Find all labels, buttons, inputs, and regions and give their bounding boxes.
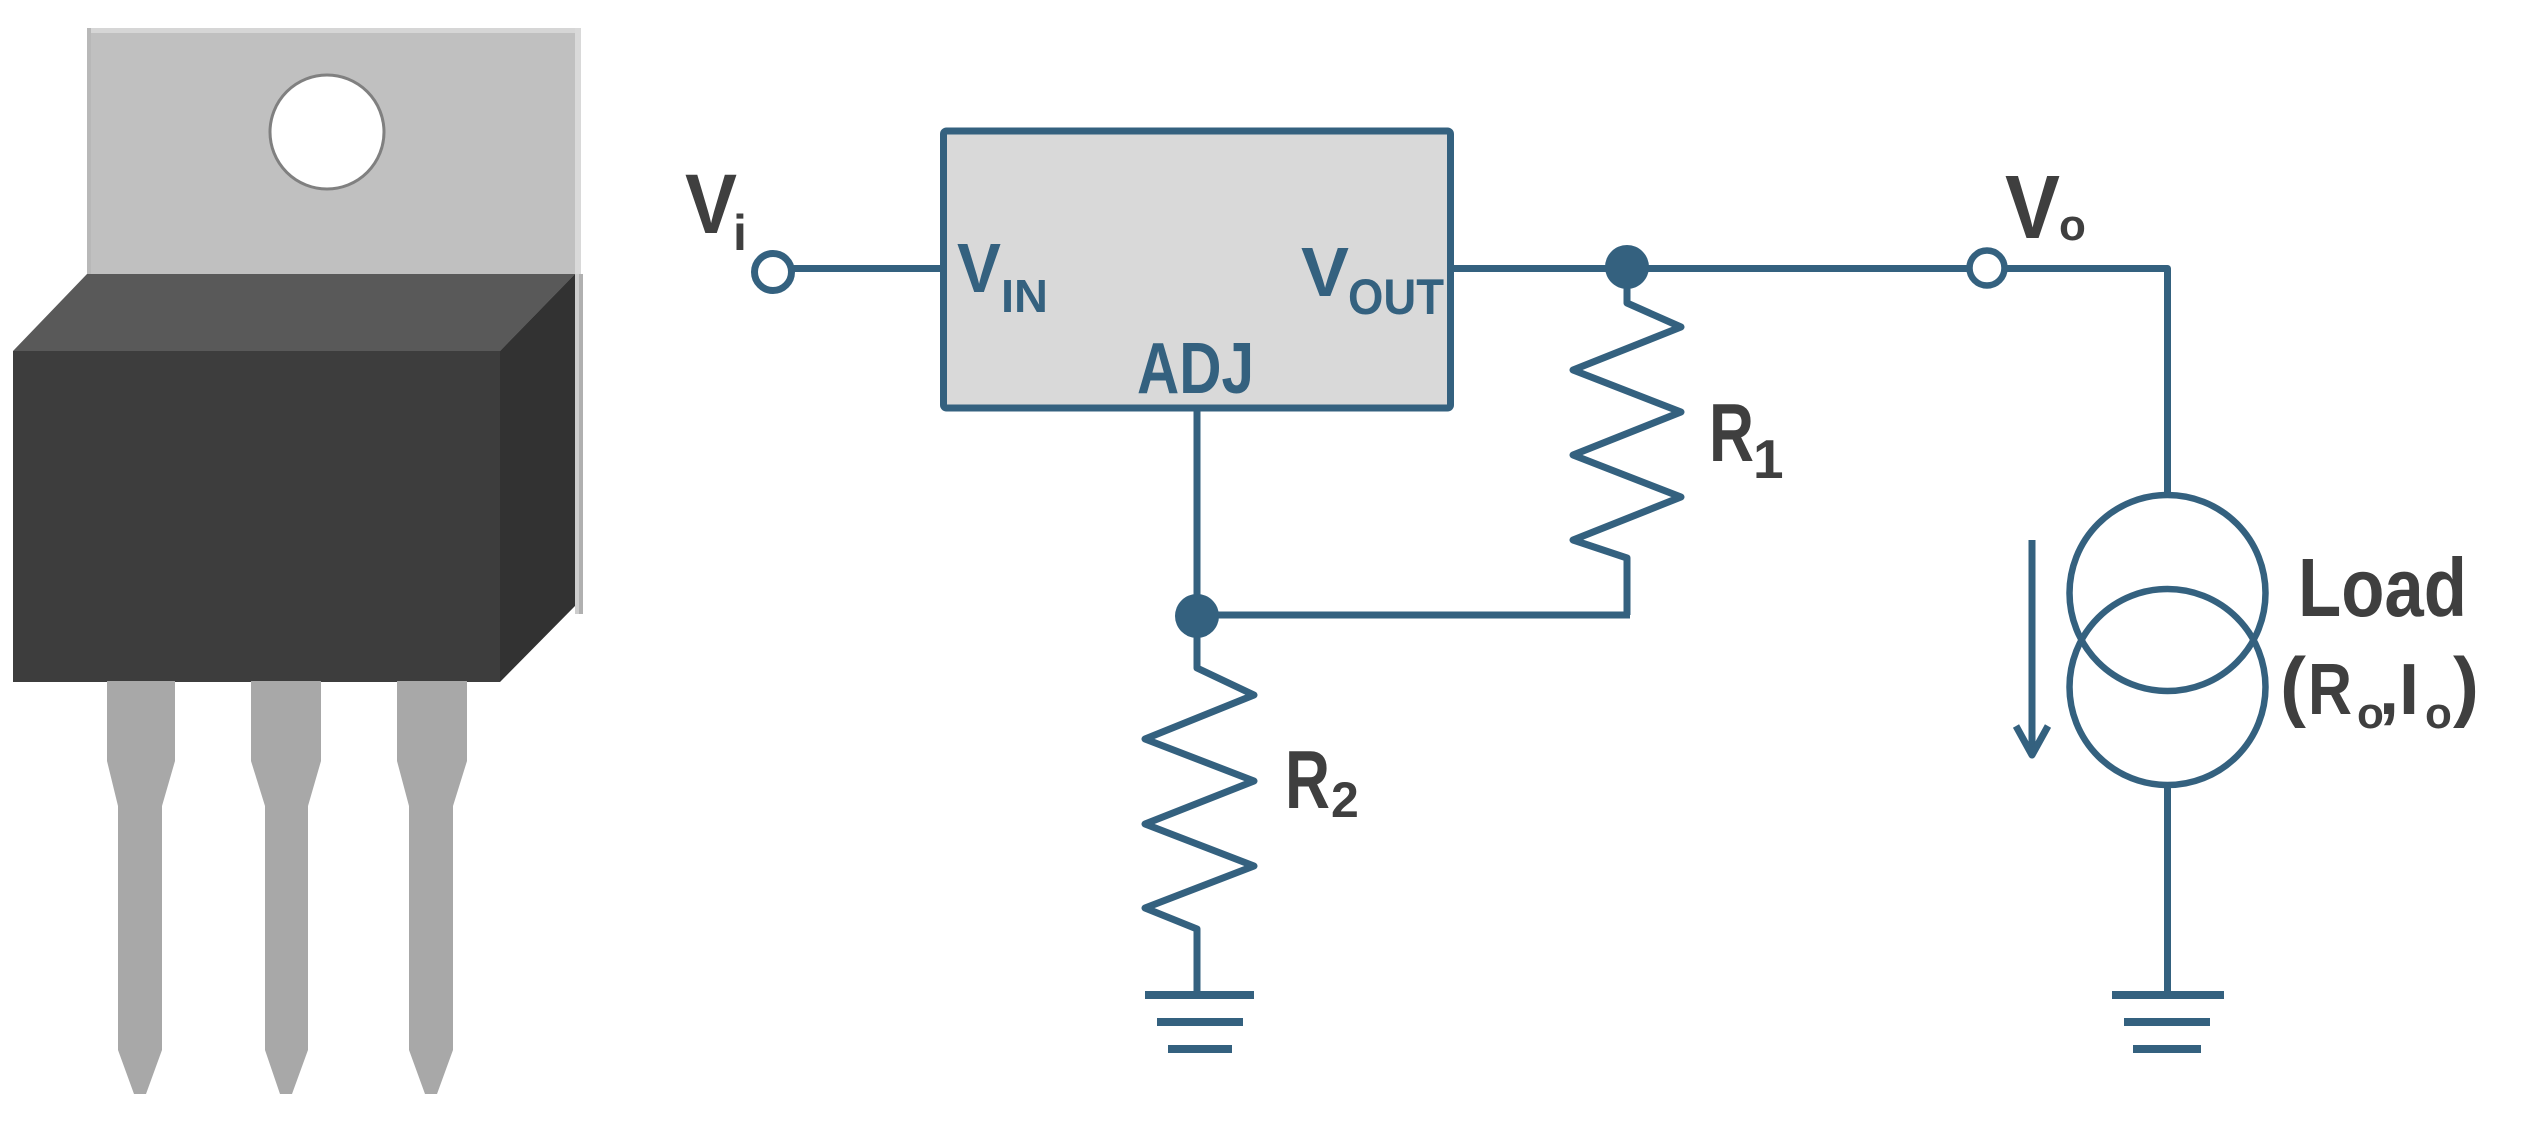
svg-text:V: V — [1301, 233, 1349, 311]
svg-text:o: o — [2059, 201, 2086, 250]
svg-text:IN: IN — [1001, 270, 1048, 322]
svg-text:i: i — [733, 205, 747, 261]
svg-text:R: R — [1285, 733, 1330, 826]
svg-text:ADJ: ADJ — [1137, 329, 1254, 409]
svg-text:): ) — [2453, 641, 2479, 729]
svg-text:2: 2 — [1331, 772, 1359, 828]
svg-text:(: ( — [2280, 641, 2306, 729]
svg-text:,: , — [2379, 650, 2399, 730]
svg-text:1: 1 — [1753, 428, 1784, 490]
svg-text:Load: Load — [2298, 541, 2467, 634]
svg-text:R: R — [2308, 650, 2352, 730]
svg-text:I: I — [2399, 650, 2419, 730]
svg-text:V: V — [2005, 158, 2060, 258]
svg-text:o: o — [2425, 689, 2452, 738]
svg-text:V: V — [957, 229, 1001, 307]
svg-text:OUT: OUT — [1348, 269, 1444, 325]
svg-text:R: R — [1709, 386, 1754, 479]
svg-text:V: V — [685, 157, 737, 251]
